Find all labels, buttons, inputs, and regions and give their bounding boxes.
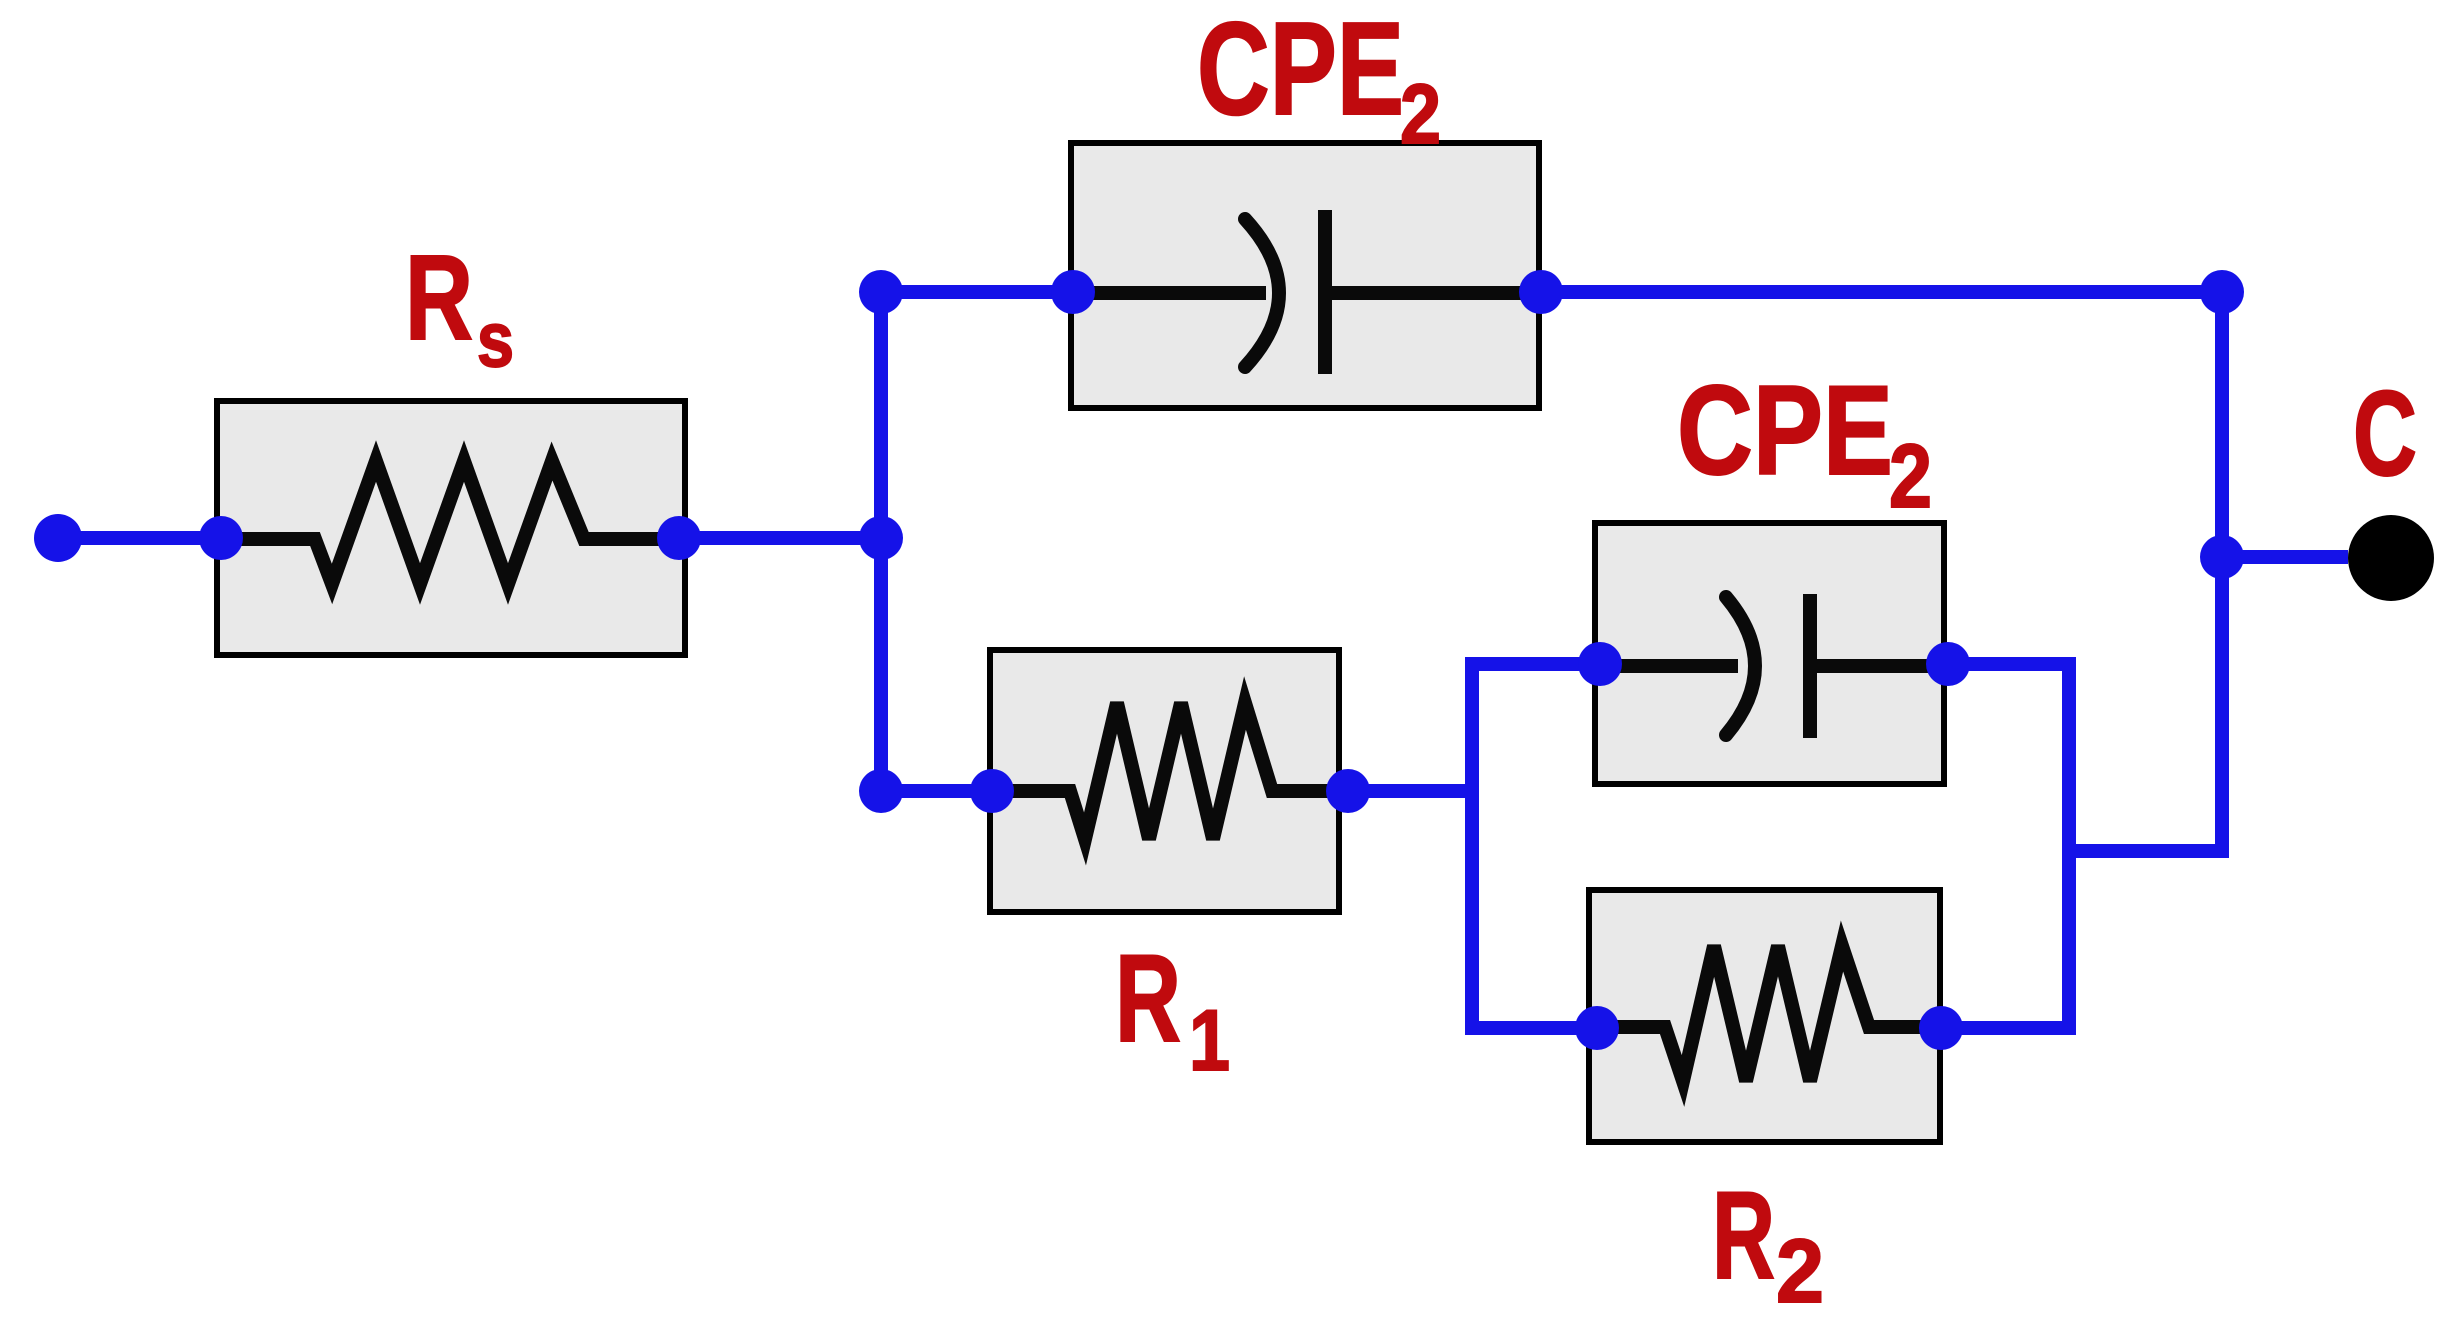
label CPE2 (lower) (1677, 359, 1932, 527)
svg-text:CPE: CPE (1197, 0, 1404, 142)
label R2 (1712, 1167, 1824, 1322)
node: CPE2 lower left pin (1578, 642, 1622, 686)
wire: bottom corner to R1 (881, 784, 992, 798)
svg-text:R: R (1712, 1167, 1775, 1305)
terminal C (black) (2348, 515, 2434, 601)
label Rs (405, 229, 514, 383)
wire: R1 to sub-parallel riser (1348, 784, 1472, 798)
node: input terminal (34, 514, 82, 562)
node: bottom branch corner (859, 769, 903, 813)
node: top branch corner (859, 270, 903, 314)
wire: main junction vertical riser (874, 292, 888, 791)
capacitor CPE2 (lower) (1595, 523, 1944, 784)
svg-text:R: R (405, 229, 473, 365)
svg-text:CPE: CPE (1677, 359, 1893, 501)
wire: sub-parallel left riser (1465, 664, 1479, 1028)
wire: Rs to main junction (679, 531, 881, 545)
svg-text:C: C (2353, 365, 2417, 501)
resistor R2 (1589, 890, 1940, 1142)
node: Rs right pin (657, 516, 701, 560)
wire: CPE2 upper to right junction corner (1541, 285, 2222, 299)
svg-text:2: 2 (1776, 1222, 1824, 1322)
wire: top corner to CPE2 upper (881, 285, 1073, 299)
node: R2 left pin (1575, 1006, 1619, 1050)
node A: main junction (859, 516, 903, 560)
capacitor CPE2 (upper) (1071, 143, 1539, 408)
node: Rs left pin (199, 516, 243, 560)
wire: riser to R2 (1465, 1021, 1600, 1035)
wire: input lead to Rs (58, 531, 222, 545)
wire: sub-parallel output to right bus (2069, 844, 2222, 858)
wire: junction to terminal C (2222, 550, 2348, 564)
wire: right vertical bus (2069, 292, 2222, 851)
label R1 (1115, 930, 1230, 1089)
svg-text:R: R (1115, 930, 1181, 1068)
svg-text:s: s (477, 295, 514, 383)
node: top right corner (2200, 270, 2244, 314)
node: R1 left pin (970, 769, 1014, 813)
node: CPE2 upper right pin (1519, 270, 1563, 314)
node: right bus junction (2200, 535, 2244, 579)
resistor R1 (990, 650, 1339, 912)
label CPE2 (upper) (1197, 0, 1441, 161)
resistor Rs (217, 401, 685, 655)
svg-text:2: 2 (1400, 67, 1441, 161)
node: CPE2 upper left pin (1051, 270, 1095, 314)
node: R1 right pin (1326, 769, 1370, 813)
wire: CPE2 lower to output riser (1941, 664, 2069, 1028)
node: R2 right pin (1919, 1006, 1963, 1050)
svg-text:1: 1 (1189, 993, 1230, 1089)
wire: riser to CPE2 lower (1465, 657, 1600, 671)
node: CPE2 lower right pin (1926, 642, 1970, 686)
svg-text:2: 2 (1889, 427, 1932, 527)
